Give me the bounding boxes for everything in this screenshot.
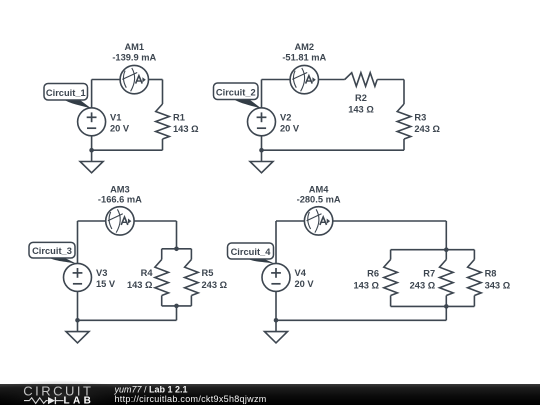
- resistor R3: [397, 104, 411, 139]
- wire AM4 right to parallel node: [333, 220, 447, 222]
- AM4 name label: [309, 184, 329, 194]
- R3 name label: [414, 112, 426, 122]
- wire R7 bottom lead: [445, 296, 447, 307]
- wire R5 bottom lead: [190, 296, 192, 306]
- AM2 reading label -51.81 mA: [282, 53, 326, 63]
- wire V4 positive terminal up: [275, 221, 277, 264]
- wire R1 top lead: [162, 80, 164, 105]
- svg-text:343 Ω: 343 Ω: [485, 281, 511, 291]
- svg-text:R4: R4: [141, 268, 154, 278]
- svg-text:143 Ω: 143 Ω: [348, 105, 374, 115]
- wire V1 top to AM1 left: [92, 79, 121, 81]
- wire R1 bottom lead: [162, 139, 164, 150]
- wire AM2 right to R2 left lead: [319, 79, 345, 81]
- wire R7 top lead: [445, 250, 447, 260]
- ammeter AM2: [290, 65, 318, 93]
- wire R6-R7-R8 top bracket: [391, 249, 475, 251]
- V3 name label: [96, 268, 107, 278]
- R3 value label 243 Ω: [414, 124, 440, 134]
- R5 value label 243 Ω: [202, 280, 228, 290]
- footer bar: [0, 380, 540, 405]
- AM4 reading label -280.5 mA: [297, 194, 341, 204]
- junction node R4-R5 bottom: [174, 304, 179, 309]
- R1 name label: [173, 112, 185, 122]
- wire R4 bottom lead: [161, 296, 163, 306]
- svg-text:R1: R1: [173, 112, 185, 122]
- svg-text:143 Ω: 143 Ω: [353, 281, 379, 291]
- wire feed down to parallel top node: [445, 221, 447, 249]
- wire V2 positive terminal up: [261, 80, 263, 108]
- svg-text:Circuit_1: Circuit_1: [46, 88, 86, 98]
- wire AM1 right to R1 top corner: [149, 79, 163, 81]
- V1 value label 20 V: [110, 124, 130, 134]
- resistor R5: [185, 260, 199, 296]
- resistor R6: [384, 260, 398, 296]
- wire parallel bottom node down: [445, 306, 447, 320]
- wire R3 bottom lead: [403, 139, 405, 150]
- V4 value label 20 V: [295, 279, 315, 289]
- wire R8 top lead: [473, 250, 475, 260]
- svg-text:Circuit_4: Circuit_4: [231, 247, 272, 257]
- R7 value label 243 Ω: [410, 281, 436, 291]
- svg-text:V1: V1: [110, 112, 121, 122]
- wire R2 right lead to corner: [377, 79, 404, 81]
- callout Circuit_4: [228, 243, 277, 264]
- svg-text:V3: V3: [96, 268, 107, 278]
- wire V4 negative terminal down: [275, 291, 277, 320]
- wire R3 top lead: [403, 80, 405, 105]
- wire R6 top lead: [390, 250, 392, 260]
- wire R4-R5 bottom node down: [176, 306, 178, 320]
- svg-text:Circuit_3: Circuit_3: [32, 246, 72, 256]
- svg-text:V4: V4: [295, 268, 307, 278]
- wire R8 bottom lead: [473, 296, 475, 307]
- svg-text:R7: R7: [423, 269, 435, 279]
- R7 name label: [423, 269, 435, 279]
- svg-text:AM3: AM3: [110, 184, 130, 194]
- ground circuit 2: [250, 150, 273, 173]
- CircuitLab logo: [23, 384, 94, 405]
- V2 name label: [280, 112, 291, 122]
- AM3 reading label -166.6 mA: [98, 194, 142, 204]
- resistor R8: [468, 260, 482, 296]
- wire V3 positive terminal up: [77, 221, 79, 264]
- wire V3 negative terminal down: [77, 291, 79, 320]
- voltage source V2: [248, 108, 276, 136]
- R1 value label 143 Ω: [173, 124, 199, 134]
- svg-text:Circuit_2: Circuit_2: [216, 87, 256, 97]
- wire bottom rail circuit 4: [276, 319, 446, 321]
- svg-text:15 V: 15 V: [96, 279, 116, 289]
- svg-text:R5: R5: [202, 268, 214, 278]
- ground circuit 4: [265, 320, 288, 343]
- wire V1 negative terminal down: [91, 136, 93, 150]
- R4 name label: [141, 268, 154, 278]
- svg-text:143 Ω: 143 Ω: [173, 124, 199, 134]
- R6 value label 143 Ω: [353, 281, 379, 291]
- junction node parallel top: [444, 247, 449, 252]
- V2 value label 20 V: [280, 124, 300, 134]
- svg-text:AM4: AM4: [309, 184, 329, 194]
- wire bottom rail circuit 3: [78, 319, 177, 321]
- wire feed down to R4-R5 top node: [176, 221, 178, 249]
- wire R4 top lead: [161, 249, 163, 260]
- svg-text:243 Ω: 243 Ω: [410, 281, 436, 291]
- R2 value label 143 Ω: [348, 105, 374, 115]
- junction node R4-R5 top: [174, 247, 179, 252]
- wire AM3 right to parallel node: [134, 220, 176, 222]
- svg-text:-280.5 mA: -280.5 mA: [297, 194, 341, 204]
- callout Circuit_1: [44, 84, 92, 109]
- junction node parallel bottom: [444, 304, 449, 309]
- ammeter AM3: [106, 207, 134, 235]
- credit text: [114, 385, 188, 395]
- R8 name label: [485, 269, 497, 279]
- V1 name label: [110, 112, 121, 122]
- AM3 name label: [110, 184, 130, 194]
- V3 value label 15 V: [96, 279, 116, 289]
- voltage source V3: [64, 263, 92, 291]
- wire bottom rail circuit 2: [262, 149, 405, 151]
- resistor R1: [156, 104, 170, 139]
- V4 name label: [295, 268, 307, 278]
- ammeter AM1: [120, 65, 148, 93]
- R8 value label 343 Ω: [485, 281, 511, 291]
- voltage source V4: [262, 263, 290, 291]
- wire R6-R7-R8 bottom bracket: [391, 305, 475, 307]
- ground circuit 1: [80, 150, 103, 173]
- svg-text:AM1: AM1: [124, 42, 144, 52]
- wire V3 top to AM3 left: [78, 220, 106, 222]
- svg-text:243 Ω: 243 Ω: [202, 280, 228, 290]
- resistor R7: [440, 260, 454, 296]
- svg-text:20 V: 20 V: [110, 124, 130, 134]
- svg-text:AM2: AM2: [294, 42, 314, 52]
- wire R4-R5 top bracket: [162, 248, 192, 250]
- svg-text:LAB: LAB: [64, 395, 95, 405]
- svg-text:-51.81 mA: -51.81 mA: [282, 53, 326, 63]
- wire bottom rail circuit 1: [92, 149, 163, 151]
- R4 value label 143 Ω: [127, 280, 153, 290]
- wire V4 top to AM4 left: [276, 220, 304, 222]
- svg-text:R8: R8: [485, 269, 497, 279]
- AM1 reading label -139.9 mA: [112, 53, 156, 63]
- resistor R2: [345, 73, 378, 87]
- wire V2 top to AM2 left: [262, 79, 291, 81]
- wire R5 top lead: [190, 249, 192, 260]
- svg-text:243 Ω: 243 Ω: [414, 124, 440, 134]
- svg-text:R2: R2: [355, 93, 367, 103]
- svg-text:143 Ω: 143 Ω: [127, 280, 153, 290]
- url text: [115, 394, 267, 404]
- AM2 name label: [294, 42, 314, 52]
- svg-text:-166.6 mA: -166.6 mA: [98, 194, 142, 204]
- svg-text:R6: R6: [367, 269, 379, 279]
- svg-text:R3: R3: [414, 112, 426, 122]
- wire V2 negative terminal down: [261, 136, 263, 150]
- R6 name label: [367, 269, 379, 279]
- R5 name label: [202, 268, 214, 278]
- svg-text:V2: V2: [280, 112, 291, 122]
- resistor R4: [155, 260, 169, 296]
- R2 name label: [355, 93, 367, 103]
- svg-text:20 V: 20 V: [280, 124, 300, 134]
- svg-text:20 V: 20 V: [295, 279, 315, 289]
- wire R6 bottom lead: [390, 296, 392, 307]
- ground circuit 3: [66, 320, 89, 343]
- svg-text:http://circuitlab.com/ckt9x5h8: http://circuitlab.com/ckt9x5h8qjwzm: [115, 394, 267, 404]
- callout Circuit_3: [29, 242, 78, 264]
- ammeter AM4: [304, 207, 332, 235]
- voltage source V1: [78, 108, 106, 136]
- wire R4-R5 bottom bracket: [162, 305, 192, 307]
- svg-text:-139.9 mA: -139.9 mA: [112, 53, 156, 63]
- junction node circuit 1 ground: [89, 148, 94, 153]
- wire V1 positive terminal up: [91, 80, 93, 108]
- callout Circuit_2: [214, 83, 262, 109]
- junction node circuit 3 ground: [75, 318, 80, 323]
- AM1 name label: [124, 42, 144, 52]
- junction node circuit 2 ground: [259, 148, 264, 153]
- junction node circuit 4 ground: [274, 318, 279, 323]
